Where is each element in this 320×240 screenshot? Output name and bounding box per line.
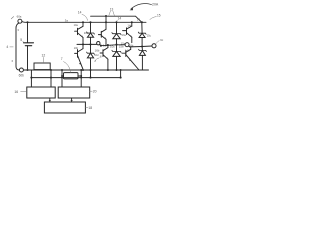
phase rail 2 [101,44,125,47]
zener diode D4 [112,45,121,70]
svg-text:20: 20 [93,90,97,94]
arrow A to C [49,98,51,101]
svg-text:3: 3 [17,28,19,32]
svg-text:60b: 60b [19,73,25,77]
zener diode D1 [87,22,95,44]
label 14 leader [82,14,88,20]
svg-text:14a: 14a [127,23,132,27]
label 6c leader [156,41,160,44]
label 12 leader [42,57,44,62]
node lineD x81.2 [80,77,82,79]
wire drop block A right [50,70,52,87]
bus C bottom [23,69,148,71]
node D2 rail [89,43,91,45]
svg-text:10a: 10a [74,24,79,27]
fuse box 12 [34,63,50,70]
svg-text:15: 15 [157,13,161,17]
wire drop x81.2 to block B [80,70,82,87]
battery 5 plate short [25,45,31,47]
svg-text:3a: 3a [65,18,69,22]
svg-text:12: 12 [42,54,46,58]
node lineD left [30,77,32,79]
svg-text:13: 13 [110,7,114,11]
transistor Q2 [75,44,84,69]
svg-text:14: 14 [118,17,122,21]
bus A top [22,21,146,24]
label 20 leader [90,90,93,92]
node Q4 rail [107,44,109,46]
node box7 right [80,75,82,77]
node box7 left [61,75,63,77]
svg-text:13a: 13a [122,34,127,37]
label 8 leader arrow [95,58,99,61]
node tick top-left [11,17,13,19]
line D ground link [31,77,120,79]
svg-text:14: 14 [137,18,141,22]
phase terminal 6c [152,44,156,48]
svg-text:18: 18 [88,106,92,110]
label 13 leader right [113,11,115,15]
node D3 top [115,21,117,23]
phase rail 1 [77,43,97,45]
svg-text:60a: 60a [17,15,22,19]
wire riser x120.6 [120,70,122,78]
zener diode D2 [87,44,95,70]
label 15 leader [150,17,157,20]
phase rail 3 [130,45,152,48]
terminal 60b [19,68,23,72]
wire battery branch upper [27,22,29,42]
transistor Q4 [100,45,108,70]
node busC x62 [61,69,63,71]
wire drop x62 [61,70,63,87]
svg-text:5: 5 [20,38,22,42]
wire battery branch lower [27,46,29,70]
svg-text:6: 6 [12,59,14,63]
node battery bottom [26,69,28,71]
transistor Q5 [123,22,132,42]
node D2 bottom [89,69,91,71]
label 18 leader [85,107,88,109]
zener diode D5 [138,22,146,46]
node lineD x50 [50,77,52,79]
node lineD x120.6 [120,77,122,79]
svg-text:16a: 16a [84,31,89,35]
wire lineD left stub [30,70,32,78]
bus B upper [91,16,142,22]
svg-text:14: 14 [78,11,82,15]
node D1 top [89,21,91,23]
sense box 7 [64,73,79,79]
transistor Q6 [122,47,139,70]
terminal 60a [18,19,22,23]
transistor Q1 [75,22,83,44]
zener diode D3 [112,22,121,44]
wire riser leg2 to busB [105,16,107,22]
node busC x120.6 [120,69,122,71]
battery 5 leader [23,42,25,43]
node D6 rail [141,45,143,47]
label 14 mid tick [115,20,118,22]
wire box7 right stub [78,75,81,77]
node D3 rail [115,44,117,46]
phase terminal 6b [125,43,129,47]
node Q3 top [105,21,107,23]
node battery top [26,21,28,23]
node lineD x62 [61,77,63,79]
block B power supply [58,87,89,98]
wire box7 left stub [62,75,64,77]
arrow B to C [71,98,73,101]
node busB x106 [105,15,107,17]
wire circle2 stub [129,45,130,48]
label 13 leader left [109,11,111,15]
svg-text:10d: 10d [94,54,99,57]
svg-text:6c: 6c [160,38,164,42]
phase terminal 6a [97,42,100,45]
block C control circuit [44,102,85,113]
svg-text:7: 7 [61,57,63,61]
node busC x50.3 [50,69,52,71]
node Q1 top [82,21,84,23]
label 20A leader arrow [131,4,152,9]
node Q2 bottom [82,69,84,71]
label 7 leader [64,62,71,73]
svg-text:15c: 15c [147,33,152,37]
svg-text:14b: 14b [125,48,130,52]
node Q4 bottom [107,69,109,71]
node busB join [141,21,143,23]
wire circle1 stub [100,44,101,45]
label 16 leader [21,90,27,92]
wire D2 to lineD [90,70,92,78]
node Q5 top [131,21,133,23]
zener diode D6 [139,47,147,71]
label 4 leader [10,46,13,48]
svg-text:4: 4 [6,45,8,49]
wire left drop from 60a [16,23,20,70]
node rail2 left [100,45,102,47]
battery 5 plate long [24,42,34,44]
svg-text:16: 16 [14,90,18,94]
node Q2 rail [82,43,84,45]
svg-text:16b: 16b [95,49,100,53]
transistor Q3 [98,22,106,45]
svg-text:8: 8 [100,54,102,58]
block A drive circuit [27,87,55,98]
node lineD x90.5 [89,77,91,79]
node D4 bottom [115,69,117,71]
node busC x81.2 [80,69,82,71]
svg-text:20A: 20A [152,2,159,6]
wire drop block A left [30,78,32,87]
